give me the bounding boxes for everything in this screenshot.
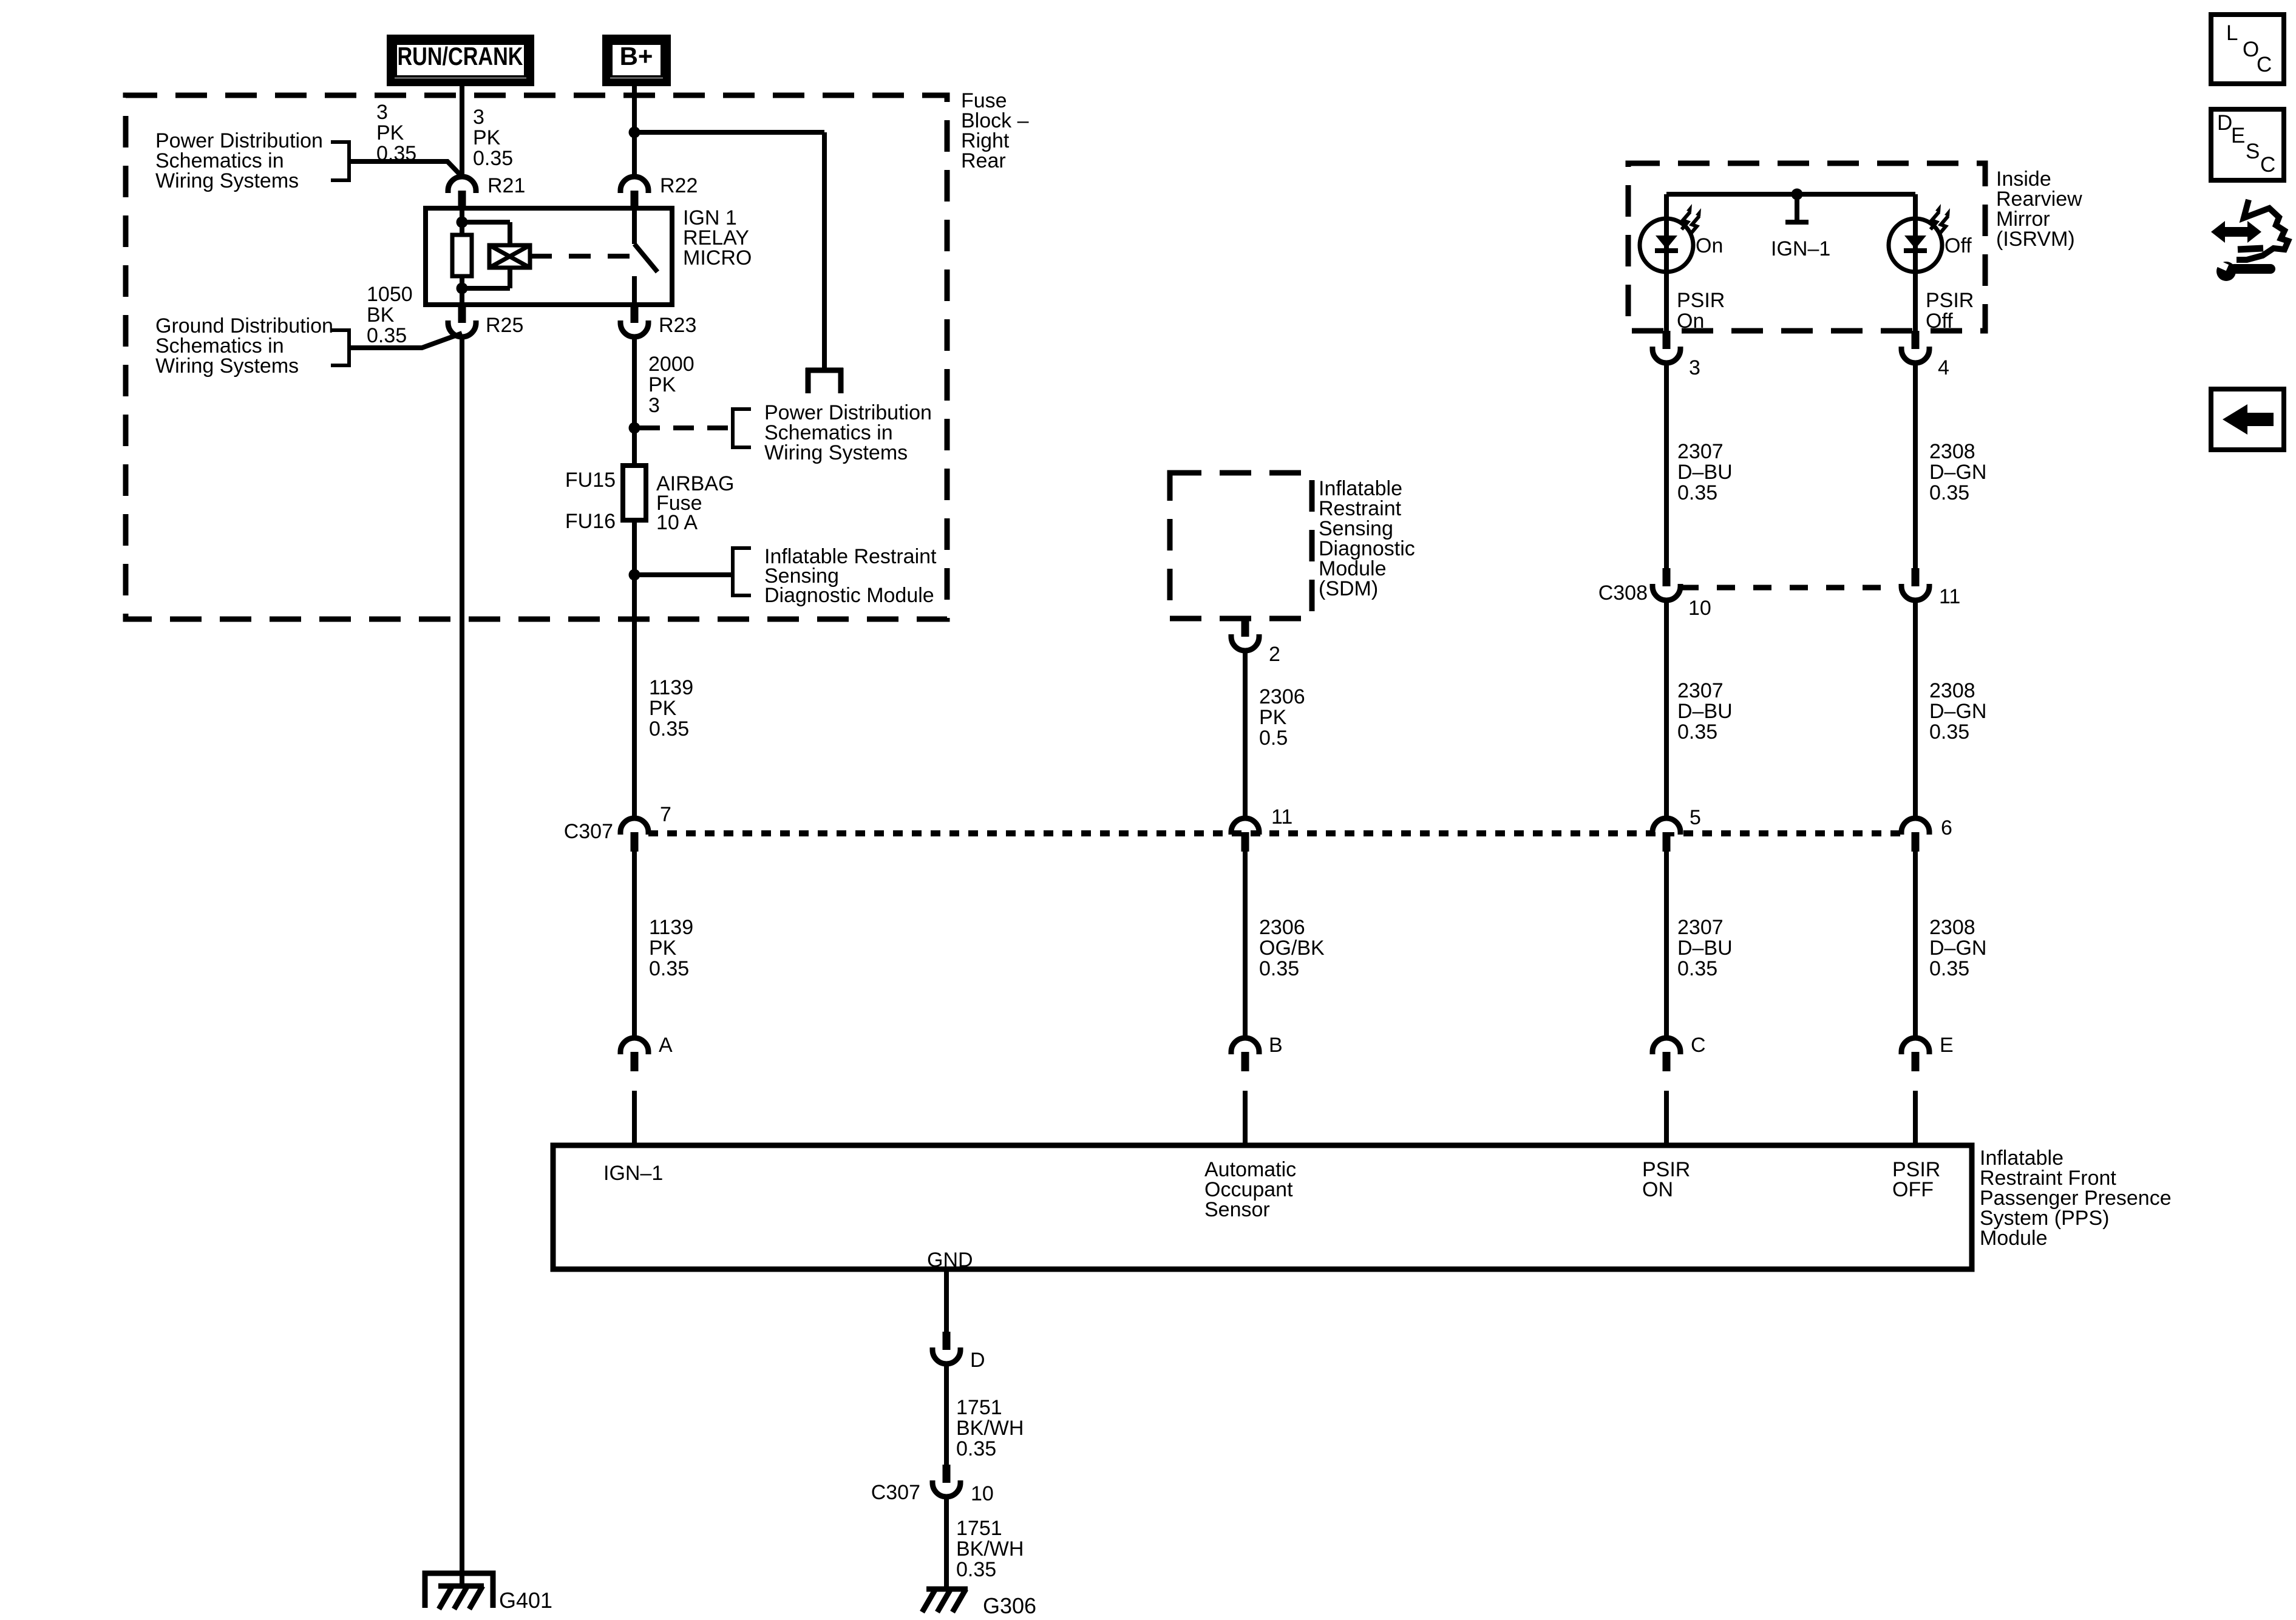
svg-text:BK: BK (367, 303, 395, 327)
svg-text:0.35: 0.35 (1929, 481, 1969, 504)
svg-text:2308: 2308 (1929, 440, 1975, 463)
svg-text:IGN–1: IGN–1 (1771, 237, 1830, 260)
svg-text:FU16: FU16 (565, 510, 616, 533)
svg-text:PK: PK (648, 373, 676, 396)
svg-text:0.5: 0.5 (1259, 727, 1288, 750)
svg-text:GND: GND (927, 1249, 973, 1272)
svg-text:7: 7 (660, 803, 671, 826)
svg-text:Wiring Systems: Wiring Systems (764, 441, 908, 464)
svg-text:D–GN: D–GN (1929, 700, 1986, 723)
svg-text:PK: PK (473, 126, 501, 149)
svg-text:C307: C307 (564, 820, 613, 843)
svg-text:R21: R21 (487, 174, 525, 197)
svg-text:0.35: 0.35 (1677, 720, 1717, 744)
svg-text:D: D (970, 1349, 985, 1372)
svg-text:1139: 1139 (649, 916, 693, 939)
svg-text:E: E (2231, 124, 2245, 147)
svg-text:10: 10 (971, 1482, 994, 1505)
svg-text:PK: PK (649, 937, 677, 960)
svg-text:Module: Module (1980, 1227, 2048, 1250)
svg-text:Rear: Rear (961, 149, 1006, 172)
svg-text:C: C (1691, 1034, 1706, 1057)
svg-text:0.35: 0.35 (473, 147, 513, 170)
svg-text:3: 3 (648, 394, 660, 417)
svg-text:E: E (1940, 1034, 1954, 1057)
svg-text:2308: 2308 (1929, 679, 1975, 702)
svg-text:10 A: 10 A (656, 511, 698, 534)
svg-text:3: 3 (1689, 356, 1700, 379)
svg-text:0.35: 0.35 (1677, 481, 1717, 504)
svg-text:6: 6 (1941, 816, 1952, 839)
svg-text:1751: 1751 (956, 1396, 1002, 1419)
svg-text:0.35: 0.35 (1259, 957, 1299, 980)
svg-text:S: S (2246, 140, 2260, 163)
svg-text:B+: B+ (620, 42, 653, 70)
svg-text:0.35: 0.35 (1929, 720, 1969, 744)
svg-text:Sensor: Sensor (1204, 1198, 1270, 1221)
svg-text:C: C (2257, 53, 2272, 76)
svg-text:BK/WH: BK/WH (956, 1537, 1024, 1561)
svg-text:0.35: 0.35 (956, 1558, 996, 1581)
svg-text:1050: 1050 (367, 283, 413, 306)
svg-text:C307: C307 (871, 1481, 920, 1504)
svg-text:IGN–1: IGN–1 (603, 1162, 663, 1185)
svg-text:2306: 2306 (1259, 685, 1305, 708)
svg-text:C308: C308 (1598, 581, 1648, 605)
svg-text:FU15: FU15 (565, 469, 616, 492)
svg-text:MICRO: MICRO (683, 246, 752, 269)
svg-text:3: 3 (473, 106, 484, 129)
svg-text:D–BU: D–BU (1677, 937, 1733, 960)
svg-text:OFF: OFF (1892, 1178, 1934, 1201)
svg-text:PSIR: PSIR (1926, 289, 1974, 312)
svg-text:G306: G306 (983, 1593, 1036, 1617)
svg-text:D: D (2217, 111, 2232, 135)
svg-text:0.35: 0.35 (956, 1437, 996, 1460)
svg-text:ON: ON (1642, 1178, 1673, 1201)
svg-text:C: C (2260, 153, 2275, 177)
svg-text:(ISRVM): (ISRVM) (1996, 228, 2075, 251)
svg-text:D–GN: D–GN (1929, 937, 1986, 960)
svg-text:2307: 2307 (1677, 679, 1724, 702)
svg-text:On: On (1696, 234, 1723, 257)
svg-text:PK: PK (1259, 706, 1287, 729)
svg-text:1751: 1751 (956, 1517, 1002, 1540)
svg-text:Off: Off (1944, 234, 1972, 257)
svg-text:0.35: 0.35 (649, 957, 689, 980)
svg-text:0.35: 0.35 (1929, 957, 1969, 980)
svg-text:2306: 2306 (1259, 916, 1305, 939)
svg-text:OG/BK: OG/BK (1259, 937, 1325, 960)
svg-text:2307: 2307 (1677, 916, 1724, 939)
svg-text:PK: PK (649, 697, 677, 720)
svg-text:(SDM): (SDM) (1319, 577, 1378, 600)
svg-text:1139: 1139 (649, 676, 693, 699)
svg-text:D–GN: D–GN (1929, 461, 1986, 484)
svg-text:Wiring Systems: Wiring Systems (155, 169, 299, 192)
svg-text:2307: 2307 (1677, 440, 1724, 463)
svg-text:D–BU: D–BU (1677, 700, 1733, 723)
svg-text:PK: PK (376, 121, 404, 144)
svg-text:2000: 2000 (648, 353, 695, 376)
svg-text:0.35: 0.35 (367, 324, 407, 347)
svg-text:5: 5 (1690, 806, 1701, 829)
svg-text:RUN/CRANK: RUN/CRANK (398, 42, 523, 70)
svg-text:G401: G401 (499, 1588, 552, 1613)
svg-text:D–BU: D–BU (1677, 461, 1733, 484)
svg-text:0.35: 0.35 (376, 142, 416, 165)
svg-text:R23: R23 (659, 314, 696, 337)
svg-text:11: 11 (1271, 805, 1292, 829)
svg-text:R22: R22 (660, 174, 698, 197)
svg-text:L: L (2226, 21, 2238, 45)
svg-text:B: B (1269, 1034, 1283, 1057)
svg-text:BK/WH: BK/WH (956, 1417, 1024, 1440)
svg-text:0.35: 0.35 (649, 717, 689, 741)
svg-text:PSIR: PSIR (1677, 289, 1725, 312)
svg-text:4: 4 (1938, 356, 1949, 379)
svg-text:R25: R25 (486, 314, 523, 337)
svg-text:2: 2 (1269, 643, 1280, 666)
svg-text:Off: Off (1926, 310, 1953, 333)
svg-text:2308: 2308 (1929, 916, 1975, 939)
svg-text:On: On (1677, 310, 1704, 333)
svg-text:3: 3 (376, 101, 388, 124)
svg-text:Diagnostic Module: Diagnostic Module (764, 584, 934, 607)
svg-text:10: 10 (1688, 597, 1711, 620)
svg-text:Wiring Systems: Wiring Systems (155, 354, 299, 378)
svg-text:0.35: 0.35 (1677, 957, 1717, 980)
svg-text:11: 11 (1939, 585, 1960, 608)
svg-text:A: A (659, 1034, 673, 1057)
